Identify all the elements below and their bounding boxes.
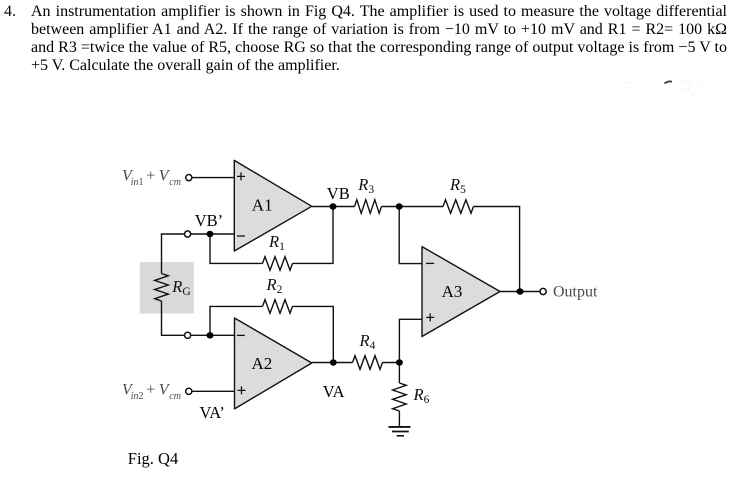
svg-text:cm: cm: [169, 177, 181, 188]
svg-text:R2: R2: [266, 275, 283, 296]
svg-text:VB: VB: [327, 184, 350, 203]
svg-text:in2: in2: [131, 391, 144, 402]
svg-text:A3: A3: [442, 282, 463, 301]
svg-text:VA’: VA’: [200, 403, 225, 422]
svg-text:R5: R5: [449, 175, 466, 196]
svg-text:R3: R3: [357, 175, 374, 196]
svg-text:R4: R4: [359, 331, 376, 352]
svg-text:+: +: [146, 382, 155, 399]
svg-text:VA: VA: [323, 382, 345, 401]
svg-text:+: +: [146, 168, 155, 185]
svg-text:in1: in1: [131, 177, 144, 188]
svg-text:A1: A1: [252, 195, 273, 214]
svg-text:R6: R6: [413, 385, 430, 406]
svg-text:VB’: VB’: [195, 211, 223, 230]
svg-text:cm: cm: [169, 391, 181, 402]
svg-text:R1: R1: [268, 232, 285, 253]
svg-text:Fig. Q4: Fig. Q4: [128, 449, 178, 468]
svg-text:Output: Output: [553, 284, 598, 301]
svg-text:A2: A2: [252, 354, 273, 373]
